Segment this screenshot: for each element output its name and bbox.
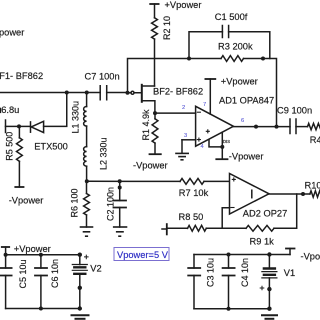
wire diode to input node [19,125,31,127]
resistor R9 1k [246,225,274,246]
node gate of BF2 (junction dot) [126,91,130,95]
svg-text:C9 100n: C9 100n [277,106,312,116]
wire terminal to R8 [167,227,188,229]
resistor R5 500 [5,126,23,187]
wire AD2 output [269,193,310,195]
op-amp U2 AD2 OP27 [230,174,288,219]
-Vpower bar (bottom-right) [286,249,295,255]
capacitor C7 100n [85,72,120,100]
node output dot 2 (feedback tap) [275,125,279,129]
wire AD1 +input [182,139,196,141]
svg-text:C2 100n: C2 100n [106,187,116,221]
ground under V1 [262,315,277,319]
svg-text:R6 100: R6 100 [70,188,80,217]
+Vpower bar (AD1) [205,78,215,80]
wire feedback up branch [189,32,222,59]
svg-text:7: 7 [203,102,206,108]
node BF2 source junction dot [153,111,157,115]
wire second-stage rail [87,180,230,182]
node output dot 1 [254,125,258,129]
-Vpower bar under R1 [150,153,161,155]
svg-text:C3 10u: C3 10u [206,258,216,287]
ground at AD1 pin 3 [176,140,188,160]
svg-text:-Vpower: -Vpower [229,152,264,162]
svg-text:V1: V1 [284,268,295,278]
wire AD2 -input branch [222,208,229,229]
svg-text:R2 10: R2 10 [162,16,172,40]
svg-text:+Vpower: +Vpower [165,0,202,10]
svg-text:AD2 OP27: AD2 OP27 [243,209,287,219]
ground under R6 [81,227,93,236]
svg-text:+Vpower: +Vpower [14,244,51,254]
capacitor C9 100n [277,106,312,134]
wire R8 to R9 and AD2 -input [206,227,246,229]
resistor R7 10k [179,179,209,199]
svg-text:Vpower=5 V: Vpower=5 V [117,250,169,260]
svg-text:-Vpower: -Vpower [301,251,320,261]
-Vpower bar (AD1) [216,158,227,160]
node AD1 V- junction dot [220,145,224,149]
+Vpower bar (bottom-left) [2,246,9,248]
svg-text:L2 330u: L2 330u [99,137,109,170]
svg-text:R1 4.9k: R1 4.9k [141,109,151,141]
svg-text:L1 330u: L1 330u [70,101,80,134]
node C4 top dot [227,253,231,257]
svg-text:R4: R4 [310,135,320,145]
svg-text:BF2- BF862: BF2- BF862 [153,87,203,97]
wire diode branch vertical [44,93,67,127]
svg-text:-Vpower: -Vpower [133,161,168,171]
svg-text:6.8u: 6.8u [1,105,19,115]
capacitor C6 10n [35,255,60,309]
wire R2 to BF2 drain (crosses feedback wire) [154,39,156,86]
wire bottom-mid top rail [194,254,290,256]
battery V2 [72,255,101,309]
svg-text:3: 3 [184,133,187,139]
svg-text:R8 50: R8 50 [179,212,204,222]
node L1 branch (junction dot) [85,91,89,95]
node V1 mid dot [267,287,271,291]
capacitor C4 10n [223,255,250,309]
wire +Vpower stem [5,247,7,255]
capacitor 6.8u (cut off at left edge) [0,105,19,133]
node dots top rail [4,253,8,257]
wire input rail from BF1 to C7 [0,92,100,94]
svg-text:R3 200k: R3 200k [218,42,253,52]
svg-text:R7 10k: R7 10k [179,188,209,198]
annotation box Vpower=5 V [114,248,169,261]
photodiode ETX500 [31,121,68,151]
inductor L1 330u [70,93,86,134]
resistor R6 100 [70,181,90,227]
capacitor C5 10u [0,255,28,309]
ground under V2 [72,315,89,319]
resistor R4 (cut off) [308,123,320,144]
wire R3 to output corner [244,59,277,127]
wire bottom-left top rail [6,254,80,256]
wire feedback rail to R3 [189,58,221,60]
inductor L2 330u [84,137,109,181]
wire bottom-left bottom rail [6,308,80,310]
wire AD1 -input from BF2 source [155,112,196,114]
wire to -Vpower bar [221,147,223,159]
svg-text:-Vpower: -Vpower [9,196,44,206]
svg-text:R10: R10 [305,180,320,190]
ground under C2 [114,227,127,236]
node R5/cap junction dot [17,124,21,128]
svg-text:ETX500: ETX500 [34,142,68,152]
wire C9 to R4 [296,126,308,128]
node C2 junction dots [118,179,122,183]
wire AD1 V+ to +Vpower [209,79,211,114]
resistor R3 200k [218,42,253,62]
capacitor C1 500f [215,12,248,38]
svg-text:BF1- BF862: BF1- BF862 [0,71,43,81]
wire bottom-mid bottom rail [194,308,269,310]
capacitor C2 100n [106,181,127,227]
transistor BF2- BF862 [130,85,204,113]
resistor R8 50 [179,212,207,231]
wire between L1 and L2 [86,126,88,147]
wire R9 to feedback corner [274,194,297,228]
node feedback left junction dot [187,57,191,61]
node feedback right junction dot [261,57,265,61]
wire C7 to gate node [107,92,128,94]
wire gate node up to feedback rail [128,59,190,93]
resistor R10 (cut off) [305,180,320,197]
node diode branch (junction dot) [65,91,69,95]
svg-text:C6 10n: C6 10n [50,259,60,288]
resistor R2 10 [150,4,172,40]
node bottom rail dots [227,307,231,311]
resistor R1 4.9k [141,109,158,154]
svg-text:C4 10n: C4 10n [240,258,250,287]
input terminal bar for R8 [162,224,167,234]
svg-text:+Vpower: +Vpower [221,76,258,86]
node dots bottom rail [39,307,43,311]
node V1 top dot [267,252,271,256]
svg-text:C5 10u: C5 10u [18,259,28,288]
wire AD1 output [233,126,290,128]
wire C1 to right corner [229,32,270,59]
svg-text:AD1 OPA847: AD1 OPA847 [219,96,274,106]
svg-text:6: 6 [241,118,244,124]
wire AD1 DIS pin [221,132,223,147]
svg-text:DIS: DIS [223,139,230,144]
svg-text:R9 1k: R9 1k [250,237,275,247]
battery V1 [260,255,295,309]
svg-text:2: 2 [182,105,185,111]
-Vpower bar under R5 [15,186,23,188]
svg-text:R5 500: R5 500 [5,132,15,161]
op-amp U1 AD1 OPA847 [196,96,275,147]
svg-text:C7 100n: C7 100n [85,72,120,82]
node AD2 output junction dot [301,192,305,196]
svg-text:V2: V2 [90,263,101,273]
node L2 bottom junction dot [85,179,89,183]
wire AD1 V- pin [209,140,222,147]
node V2 mid dot [78,286,82,290]
capacitor C3 10u [188,255,215,309]
svg-text:C1 500f: C1 500f [215,12,248,22]
svg-text:power: power [0,28,24,38]
